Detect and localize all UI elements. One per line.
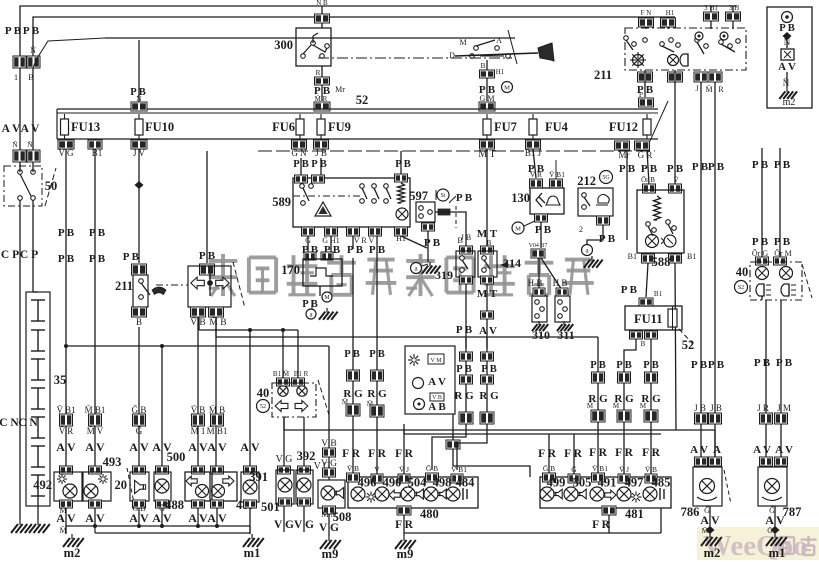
svg-text:212: 212 <box>577 174 596 188</box>
svg-text:R: R <box>718 85 724 94</box>
svg-text:F R: F R <box>368 448 386 460</box>
212 output <box>579 216 616 245</box>
junction FU10 wire <box>135 181 144 189</box>
svg-text:P B: P B <box>89 253 106 265</box>
watermark center <box>209 254 594 296</box>
diagonal mark 211 <box>233 262 245 308</box>
211 top connectors <box>639 4 741 29</box>
wire 493 column <box>85 405 106 454</box>
svg-text:P B: P B <box>23 25 40 37</box>
svg-text:R G: R G <box>367 388 387 400</box>
wire left turn feed <box>342 258 363 474</box>
svg-text:J B: J B <box>710 403 722 413</box>
bottom left collector line <box>66 524 250 534</box>
lamp 391 <box>249 466 294 532</box>
svg-text:1: 1 <box>14 72 18 82</box>
svg-text:787: 787 <box>783 505 802 519</box>
40R lamps <box>756 267 793 280</box>
svg-text:P B: P B <box>456 364 471 375</box>
589 internals <box>300 183 408 220</box>
svg-text:P B: P B <box>691 359 708 371</box>
lamp 490 <box>375 476 401 502</box>
svg-text:300: 300 <box>274 38 293 52</box>
cluster output <box>446 414 530 477</box>
svg-text:H B: H B <box>528 278 543 288</box>
svg-text:V̄: V̄ <box>374 465 380 474</box>
horn relay 130 <box>511 160 565 214</box>
svg-text:484: 484 <box>456 476 476 490</box>
svg-text:A V: A V <box>21 123 40 135</box>
svg-text:B: B <box>480 61 485 70</box>
40R headlights <box>756 284 796 296</box>
wire B1 output down <box>89 149 106 466</box>
connector FU12 output B <box>635 141 653 160</box>
svg-text:319: 319 <box>435 268 453 282</box>
connector 300 top <box>315 0 330 28</box>
svg-text:M: M <box>459 38 466 47</box>
svg-text:F N: F N <box>641 9 652 17</box>
svg-text:C N: C N <box>0 417 19 429</box>
svg-text:M̄ B1: M̄ B1 <box>207 426 228 436</box>
wire FU10 down to 211 <box>123 149 140 263</box>
turn lamp 488 <box>165 466 210 526</box>
211 bottom connectors <box>637 72 724 96</box>
svg-text:488: 488 <box>165 498 184 512</box>
wire 211 second input <box>199 151 216 263</box>
wire 597 to 319 <box>435 212 466 246</box>
svg-text:Ḡ: Ḡ <box>136 426 143 436</box>
bus mid middle <box>216 317 598 337</box>
svg-text:M̄: M̄ <box>587 402 594 410</box>
svg-text:A V: A V <box>129 440 149 454</box>
svg-text:Ñ: Ñ <box>27 139 33 149</box>
connector strip 35 <box>26 292 66 506</box>
svg-text:P B: P B <box>58 227 75 239</box>
480 bottom connector <box>395 506 439 536</box>
svg-text:J B: J B <box>461 233 471 242</box>
svg-text:P B: P B <box>5 25 22 37</box>
svg-text:FU6: FU6 <box>272 120 295 134</box>
svg-text:F R: F R <box>395 448 413 460</box>
svg-text:P B: P B <box>344 349 359 360</box>
svg-text:V G: V G <box>294 519 314 531</box>
svg-text:40: 40 <box>257 386 270 400</box>
svg-text:M̄: M̄ <box>705 85 712 94</box>
side lamp 787 <box>758 467 801 519</box>
svg-text:m2: m2 <box>783 97 796 108</box>
watermark bottom right <box>697 527 819 562</box>
svg-text:J: J <box>695 84 698 93</box>
bus below strip <box>258 150 655 152</box>
svg-text:F R: F R <box>615 447 633 459</box>
svg-text:R G: R G <box>479 390 499 402</box>
svg-text:V G: V G <box>276 454 293 465</box>
wire far right vertical B <box>774 148 792 265</box>
svg-text:P B: P B <box>347 244 364 256</box>
wire 500 column <box>152 346 185 466</box>
wire FU12 outputs down <box>619 150 684 240</box>
svg-text:V̄ R: V̄ R <box>530 170 542 179</box>
211 contacts <box>624 32 741 54</box>
svg-text:V̄ B1: V̄ B1 <box>549 170 565 179</box>
svg-text:A B: A B <box>428 401 446 413</box>
svg-text:M: M <box>324 295 330 301</box>
130 output <box>512 214 552 248</box>
lamp 501 <box>241 466 280 526</box>
fuse FU12 <box>609 114 651 139</box>
svg-text:N̄: N̄ <box>784 37 791 47</box>
svg-text:3 H1: 3 H1 <box>704 4 718 12</box>
ground m1 bottom left <box>243 526 264 560</box>
svg-text:P B: P B <box>535 224 552 236</box>
wire 314 column lower <box>457 338 499 470</box>
svg-text:C P: C P <box>20 249 38 261</box>
wire ladder output <box>37 496 39 520</box>
svg-text:A V: A V <box>207 440 227 454</box>
svg-text:P B: P B <box>395 159 410 170</box>
ground 212 <box>582 245 603 268</box>
svg-text:A: A <box>713 444 721 456</box>
connector FU7 input <box>479 102 495 111</box>
svg-text:P B: P B <box>369 349 384 360</box>
svg-text:M̄: M̄ <box>613 402 620 410</box>
svg-text:B1: B1 <box>92 148 103 158</box>
svg-text:V G: V G <box>274 519 294 531</box>
svg-text:M: M <box>640 402 647 410</box>
FU11 output connectors <box>630 331 658 348</box>
fuse FU4 <box>529 114 569 139</box>
svg-text:V G: V G <box>319 522 339 534</box>
svg-text:B1: B1 <box>687 252 696 261</box>
connector B1 output <box>88 140 102 158</box>
svg-text:Ñ B: Ñ B <box>316 0 328 7</box>
diagonal mark 786 <box>724 470 731 504</box>
lamp 498 <box>424 476 451 502</box>
svg-text:B1: B1 <box>654 290 663 298</box>
svg-text:492: 492 <box>33 478 52 492</box>
lamp 497 <box>617 476 643 503</box>
svg-text:N̄: N̄ <box>783 78 790 88</box>
svg-text:J R: J R <box>757 403 769 413</box>
svg-text:597: 597 <box>409 189 428 203</box>
786 output <box>700 506 720 534</box>
svg-text:P B: P B <box>481 364 496 375</box>
svg-text:Si: Si <box>440 193 445 199</box>
turn lamp 489 <box>207 466 254 526</box>
diagonal mark 493 <box>127 468 134 503</box>
svg-text:A V: A V <box>479 325 497 337</box>
svg-text:Ñ: Ñ <box>12 139 18 149</box>
svg-text:20: 20 <box>115 478 128 492</box>
svg-text:M: M <box>504 84 510 91</box>
svg-text:485: 485 <box>652 476 671 490</box>
node PBPB top-left labels <box>5 25 40 37</box>
lamp 504 <box>401 476 427 502</box>
fuse FU13 <box>61 114 101 139</box>
ground m2 bottom left <box>59 526 83 560</box>
svg-text:M̄ V: M̄ V <box>87 426 104 436</box>
svg-text:P B: P B <box>123 251 140 263</box>
connector FU10 output <box>131 140 147 158</box>
svg-text:498: 498 <box>433 476 452 490</box>
svg-text:493: 493 <box>103 455 122 469</box>
svg-text:V̄ B: V̄ B <box>347 464 359 473</box>
211 left arrows <box>191 270 229 296</box>
211 left internals <box>139 279 166 300</box>
589 bottom connectors <box>302 227 408 245</box>
wire 485 feed <box>640 339 661 474</box>
buzzer 508 <box>318 480 351 536</box>
connector FU7 output <box>478 140 495 160</box>
fuse FU7 <box>483 114 517 139</box>
svg-text:A V: A V <box>775 444 793 456</box>
svg-text:M̄ B: M̄ B <box>209 316 226 328</box>
wire 392 column <box>297 417 331 472</box>
wire 40L input A <box>273 330 290 378</box>
wire 497 feed <box>613 339 636 474</box>
svg-text:A V: A V <box>428 376 446 388</box>
svg-text:P B: P B <box>199 250 216 262</box>
wire left column B <box>33 38 105 152</box>
wire 505 feed <box>564 434 582 474</box>
svg-text:Ḡ B: Ḡ B <box>543 464 555 473</box>
lamp 485 <box>643 476 670 502</box>
svg-text:311: 311 <box>557 328 574 342</box>
wire 501 column <box>240 330 260 466</box>
relay 589 <box>272 178 410 227</box>
svg-text:35: 35 <box>54 373 67 387</box>
wire left column B lower <box>32 200 34 292</box>
connector FU13 output <box>58 140 74 158</box>
lamp 392 <box>294 466 314 532</box>
node CNCN labels <box>0 417 38 429</box>
40L arrows <box>275 401 308 412</box>
indicator block 40 left <box>257 378 317 417</box>
timer 170 <box>281 236 342 286</box>
svg-text:211: 211 <box>115 279 133 293</box>
connector pair top-left <box>13 45 40 82</box>
wire 391 column <box>276 417 293 466</box>
bus 52 double line <box>57 93 658 113</box>
lighting switch 211 <box>594 28 746 82</box>
lamp strip 481 <box>540 477 671 508</box>
ground 597 <box>411 262 441 274</box>
svg-text:P B: P B <box>708 359 725 371</box>
fuse FU10 <box>135 114 174 139</box>
svg-text:170: 170 <box>281 263 300 277</box>
svg-text:505: 505 <box>573 476 592 490</box>
cluster symbols <box>408 354 446 413</box>
40L lamps <box>278 386 307 396</box>
svg-text:V̄ J: V̄ J <box>399 465 409 474</box>
svg-text:Ñ: Ñ <box>30 45 36 55</box>
svg-text:P B: P B <box>752 236 769 248</box>
indicator block 40 right <box>735 262 803 300</box>
svg-text:H1: H1 <box>666 9 675 17</box>
svg-text:F R: F R <box>538 448 556 460</box>
wire FU4 down <box>528 149 545 178</box>
svg-text:2: 2 <box>579 225 583 234</box>
wire 40L input B <box>294 330 309 378</box>
connector 130 lower <box>529 243 548 258</box>
switch 50 <box>4 162 57 206</box>
wire 508 column <box>321 346 337 480</box>
ground 787 <box>766 526 787 560</box>
svg-text:P B: P B <box>89 227 106 239</box>
svg-text:P B: P B <box>599 233 616 245</box>
svg-text:P B: P B <box>752 159 769 171</box>
svg-text:A V: A V <box>56 511 76 525</box>
wire 300 output <box>314 66 345 101</box>
svg-text:A V: A V <box>56 440 76 454</box>
svg-text:F R: F R <box>342 448 360 460</box>
wire 492 column <box>56 405 76 454</box>
lamp 499 <box>540 476 565 502</box>
svg-text:F R: F R <box>564 448 582 460</box>
lamp unit 493 <box>83 455 121 526</box>
wire 488 column <box>188 317 208 466</box>
svg-text:50: 50 <box>45 179 58 193</box>
wire dash line mid top <box>318 57 512 59</box>
787 output <box>765 506 785 534</box>
connector FU9 input <box>314 95 330 111</box>
svg-text:P B: P B <box>58 253 75 265</box>
svg-text:G N: G N <box>291 148 307 158</box>
bus mid upper <box>199 317 298 332</box>
svg-text:V̄ B: V̄ B <box>645 465 657 474</box>
module internals <box>778 12 797 109</box>
svg-text:P B: P B <box>621 284 638 296</box>
svg-text:Ōr B: Ōr B <box>641 176 655 184</box>
wire top bus 1 <box>20 6 737 62</box>
cluster box <box>405 346 455 414</box>
wire left column A <box>19 68 21 152</box>
wire top bus 3 <box>105 37 515 39</box>
diagonal mark 40L <box>318 380 330 418</box>
481 bottom connector <box>592 506 644 533</box>
wire 588 to FU11 <box>621 263 676 430</box>
svg-text:D: D <box>449 51 455 60</box>
ground left pair B <box>29 520 50 533</box>
svg-text:m9: m9 <box>322 547 339 561</box>
588 lamps <box>646 235 677 248</box>
switch 319 <box>435 233 475 348</box>
svg-text:3 H: 3 H <box>729 4 739 12</box>
wire 504 feed <box>395 430 413 474</box>
svg-text:B1 M̄: B1 M̄ <box>273 370 290 378</box>
svg-text:Ḡ B: Ḡ B <box>426 464 438 473</box>
lamp 505 <box>564 476 591 502</box>
svg-text:S2: S2 <box>738 285 744 291</box>
fuse holder FU11 <box>625 306 682 330</box>
svg-text:H B: H B <box>553 278 568 288</box>
ground m9 second <box>395 536 416 561</box>
svg-text:P B: P B <box>774 236 791 248</box>
svg-text:J B: J B <box>315 148 327 158</box>
svg-text:V̄ B1: V̄ B1 <box>592 464 608 473</box>
svg-text:P B: P B <box>774 159 791 171</box>
svg-text:M: M <box>515 225 521 232</box>
svg-text:V̄ R: V̄ R <box>59 426 74 436</box>
svg-text:J M: J M <box>777 403 791 413</box>
svg-text:A V: A V <box>778 61 796 73</box>
ground left pair A <box>11 520 32 533</box>
svg-text:A V: A V <box>690 444 708 456</box>
svg-text:P B: P B <box>311 159 326 170</box>
diagonal break mark <box>508 30 517 64</box>
svg-text:FU11: FU11 <box>634 312 662 326</box>
svg-text:A V: A V <box>2 123 21 135</box>
wire 211 to FU12 input <box>639 70 654 107</box>
ground 170 <box>306 308 338 320</box>
svg-text:A V: A V <box>240 440 260 454</box>
diagonal mark 40R <box>802 264 812 298</box>
wire right vertical A <box>690 82 709 466</box>
svg-text:A V: A V <box>152 511 172 525</box>
wire far right vertical A <box>752 148 769 265</box>
fuse FU9 <box>317 114 351 139</box>
svg-text:P B: P B <box>456 192 473 204</box>
column switch contacts <box>449 36 510 60</box>
svg-text:M̄: M̄ <box>702 526 709 535</box>
bottom middle collector <box>404 508 661 533</box>
svg-text:52: 52 <box>356 93 369 107</box>
wire to 311 diagonal <box>539 258 562 290</box>
wire 491 feed <box>587 337 608 474</box>
svg-text:481: 481 <box>625 507 644 521</box>
svg-text:R G: R G <box>454 390 474 402</box>
svg-text:211: 211 <box>594 68 612 82</box>
connector FU9 output <box>314 140 329 158</box>
svg-text:P B: P B <box>692 161 709 173</box>
washer pump 311 <box>553 278 575 342</box>
svg-text:P B: P B <box>667 163 684 175</box>
wire right turn feed <box>367 236 387 474</box>
svg-text:V̄ J: V̄ J <box>619 465 629 474</box>
svg-text:391: 391 <box>249 470 268 484</box>
svg-text:FU7: FU7 <box>494 120 517 134</box>
svg-text:M̄ 1: M̄ 1 <box>191 426 206 436</box>
svg-text:m1: m1 <box>244 546 261 560</box>
svg-text:A V: A V <box>188 440 208 454</box>
svg-text:P B: P B <box>754 357 771 369</box>
481 top connectors <box>543 464 658 483</box>
module box m2 top right <box>767 7 812 108</box>
svg-text:R: R <box>315 68 320 77</box>
svg-text:Mr: Mr <box>335 85 345 94</box>
wire 787 vertical A <box>753 296 772 466</box>
svg-text:392: 392 <box>297 449 316 463</box>
211 headlight symbol <box>668 54 689 66</box>
svg-text:40: 40 <box>736 265 749 279</box>
wire column switch output <box>479 60 513 103</box>
svg-text:FU4: FU4 <box>545 120 569 134</box>
svg-text:P B: P B <box>641 163 658 175</box>
wire 20 column <box>129 327 149 466</box>
svg-text:A V: A V <box>129 511 149 525</box>
svg-text:P B: P B <box>776 357 793 369</box>
svg-text:B: B <box>136 317 142 327</box>
wire right vertical B <box>708 82 725 466</box>
bus mid lower <box>64 344 329 348</box>
ignition switch 300 <box>274 28 331 66</box>
node AVAV labels left <box>2 123 40 135</box>
connector FU10 feed <box>130 40 147 111</box>
bus lower short <box>404 424 661 434</box>
svg-text:m9: m9 <box>397 547 414 561</box>
wire 589 to 597 diagonal <box>401 236 427 248</box>
svg-text:52: 52 <box>260 404 266 410</box>
